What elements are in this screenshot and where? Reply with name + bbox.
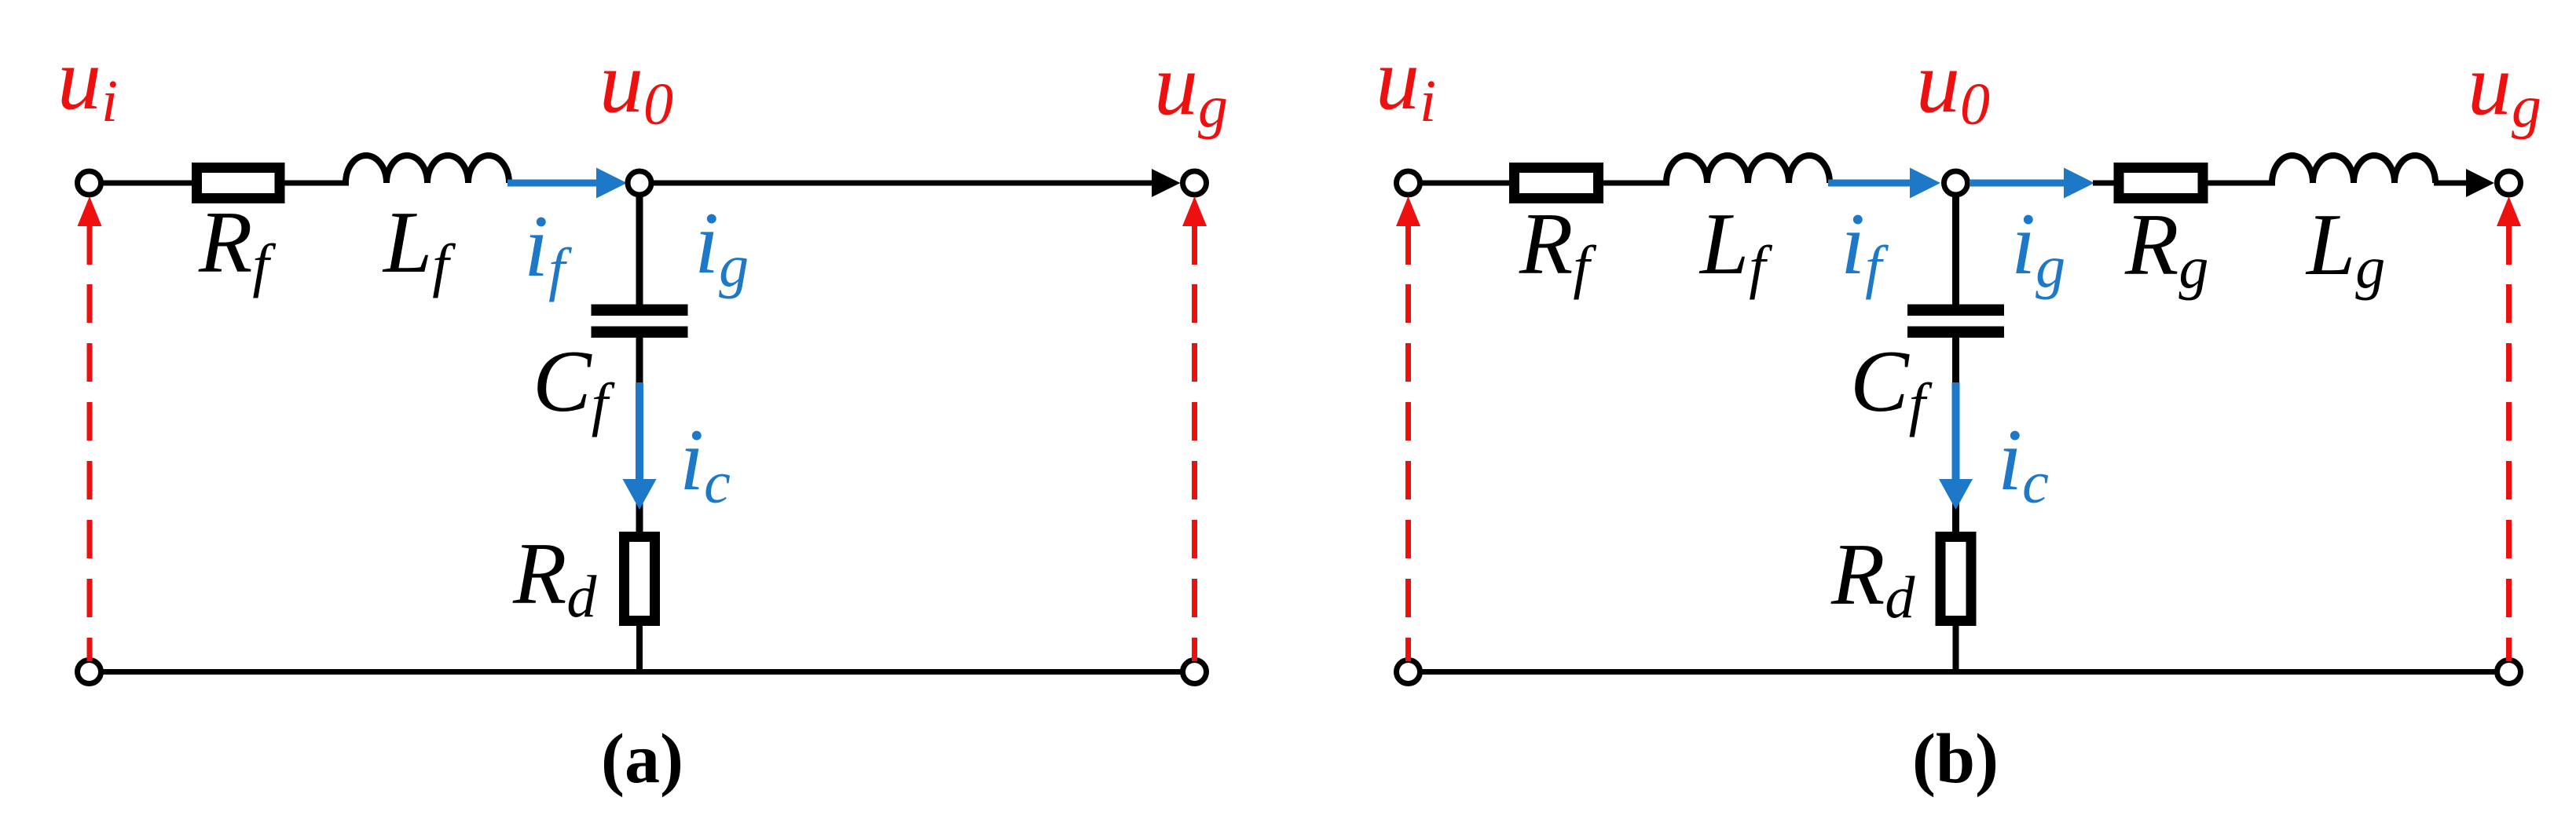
svg-text:Rd: Rd [512,525,597,630]
voltage arrow ug b [2497,196,2521,226]
svg-text:Rf: Rf [198,194,276,298]
wire Lg to ug arrow b [2434,181,2468,186]
svg-text:ic: ic [680,411,731,516]
voltage arrow ui [78,196,102,226]
wire u0 down to Cf [636,194,643,306]
terminal ug [1183,171,1207,195]
wire input to Rf [101,181,196,186]
arrowhead into ug [1152,169,1181,197]
current arrow ic [636,382,643,481]
resistor Rd [625,537,655,621]
terminal ui [78,171,101,195]
svg-text:Rf: Rf [1519,196,1596,300]
resistor Rd b [1940,537,1971,621]
svg-text:(b): (b) [1912,720,1999,798]
terminal bottom-left b [1397,660,1420,684]
svg-text:ig: ig [2011,196,2065,300]
node u0 b [1944,171,1968,195]
wire Rf to Lf b [1603,181,1669,186]
wire Rg to Lg [2208,181,2275,186]
terminal bottom-right [1183,660,1207,684]
current arrow ig b [1970,180,2068,187]
terminal ug b [2497,171,2521,195]
wire Cf to Rd b [1952,338,1959,535]
wire ig arrow to Rg [2093,181,2116,186]
svg-text:ug: ug [2468,36,2541,140]
svg-text:ui: ui [1376,31,1436,134]
bottom rail [101,669,1183,675]
terminal bottom-right b [2497,660,2521,684]
svg-text:Rg: Rg [2124,196,2208,301]
svg-text:ig: ig [694,195,749,299]
svg-text:Lf: Lf [1698,196,1772,300]
resistor Rf [197,168,280,199]
svg-text:Lg: Lg [2305,196,2385,301]
bottom rail b [1420,669,2497,675]
wire Cf to Rd [636,338,643,535]
svg-text:Cf: Cf [1850,333,1933,437]
capacitor Cf [592,305,688,316]
inductor Lg [2272,155,2435,183]
svg-text:(a): (a) [601,720,683,798]
svg-text:Lf: Lf [382,194,456,298]
capacitor Cf b [1907,305,2004,316]
wire Rf to Lf [284,181,349,186]
wire input to Rf b [1420,181,1515,186]
terminal bottom-left [78,660,101,684]
svg-text:ic: ic [1998,411,2049,516]
resistor Rg [2119,168,2203,199]
resistor Rf b [1515,168,1599,199]
svg-text:ui: ui [57,31,118,134]
wire Rd to bottom rail b [1953,626,1959,671]
svg-text:u0: u0 [599,34,673,137]
voltage arrow ug [1182,196,1207,226]
terminal ui b [1397,171,1420,195]
wire Rd to bottom rail [636,626,643,671]
wire u0 down to Cf b [1952,194,1959,306]
voltage arrow ui b [1396,196,1420,226]
svg-text:if: if [1841,196,1889,300]
inductor Lf [346,155,509,183]
svg-text:Cf: Cf [533,333,615,437]
wire u0 to ug arrow [653,181,1155,186]
arrowhead into ug b [2466,169,2494,197]
svg-text:Rd: Rd [1830,526,1915,631]
current arrow if b [1828,180,1914,187]
svg-text:if: if [524,198,572,302]
node u0 [628,171,651,195]
svg-text:u0: u0 [1916,34,1990,137]
current arrow if [508,180,600,187]
current arrow ic b [1952,382,1960,481]
svg-text:ug: ug [1154,36,1228,140]
inductor Lf b [1666,155,1830,183]
